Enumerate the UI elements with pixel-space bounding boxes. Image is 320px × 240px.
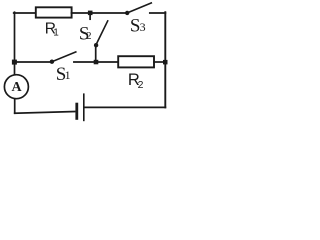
- wire right vertical: [164, 12, 166, 107]
- switch S2 pivot dot: [94, 43, 98, 47]
- svg-text:1: 1: [53, 28, 59, 39]
- resistor R2: [118, 56, 154, 67]
- wire top-left segment: [14, 12, 37, 14]
- switch S3 lever: [127, 3, 151, 13]
- wire left vertical (top corner down to ammeter): [14, 12, 16, 74]
- battery negative plate (short thick): [75, 104, 78, 118]
- svg-text:3: 3: [140, 20, 146, 34]
- svg-text:2: 2: [86, 31, 91, 42]
- wire top-right segment (S3 to corner): [150, 12, 166, 14]
- svg-text:A: A: [11, 80, 22, 95]
- wire bottom-right segment (battery to right corner): [85, 106, 166, 108]
- svg-text:1: 1: [65, 68, 71, 82]
- battery positive plate (long thin): [83, 94, 85, 120]
- wire S2 stub from top junction: [89, 13, 91, 19]
- switch S2 lever: [96, 21, 108, 45]
- wire middle-left segment: [14, 61, 51, 63]
- node junction J2 (left vertical / middle wire): [12, 60, 17, 65]
- node junction J3 (middle wire / S2 branch): [94, 60, 99, 65]
- wire top middle segment (R1 to S3): [72, 12, 127, 14]
- ammeter A1 circle: [4, 75, 28, 99]
- resistor R1: [36, 7, 72, 17]
- node junction J4 (right vertical / middle wire): [163, 60, 168, 65]
- wire middle segment (S1 to R2): [74, 61, 119, 63]
- node junction J1 (top wire / S2 branch): [88, 11, 93, 16]
- switch S3 pivot dot: [125, 11, 129, 15]
- switch S1 lever: [52, 52, 76, 62]
- wire ammeter bottom stub: [14, 99, 16, 113]
- switch S1 pivot dot: [50, 60, 54, 64]
- svg-text:2: 2: [138, 79, 144, 91]
- wire middle-right segment: [154, 61, 165, 63]
- wire S2 vertical to middle wire: [95, 45, 97, 62]
- wire bottom-left segment (to battery): [15, 112, 75, 114]
